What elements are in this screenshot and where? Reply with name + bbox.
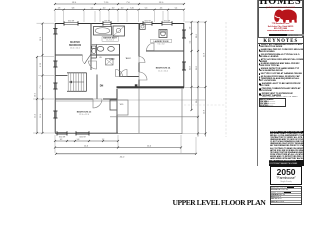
svg-text:21'-6: 21'-6 bbox=[203, 53, 205, 57]
window size labels (top wall) bbox=[68, 20, 171, 22]
mammoth logo bbox=[273, 9, 299, 23]
room label: MASTER BATH bbox=[102, 37, 119, 42]
svg-text:MASTER BATH: MASTER BATH bbox=[103, 37, 117, 40]
svg-text:3050 SH: 3050 SH bbox=[144, 20, 151, 22]
window (top wall) bbox=[162, 21, 172, 25]
svg-text:4-0: 4-0 bbox=[189, 27, 191, 30]
svg-text:6-2: 6-2 bbox=[189, 41, 191, 44]
inverted bars bbox=[269, 160, 304, 163]
spec table bbox=[270, 186, 303, 205]
svg-text:10-4: 10-4 bbox=[196, 99, 198, 102]
dimension chain: bottom second bbox=[54, 146, 182, 149]
svg-text:12'-4: 12'-4 bbox=[147, 146, 151, 148]
window (right wall) bbox=[182, 62, 186, 70]
interior wall: master bedroom east bbox=[90, 23, 92, 55]
svg-text:3050 SH: 3050 SH bbox=[79, 137, 86, 139]
room label: LOFT bbox=[109, 59, 115, 61]
svg-text:11'-4: 11'-4 bbox=[35, 114, 37, 118]
sheet title: UPPER LEVEL FLOOR PLAN bbox=[173, 198, 266, 207]
keynote list bbox=[259, 44, 304, 97]
shower (master bath) bbox=[113, 26, 125, 36]
label: DN bbox=[100, 85, 104, 88]
door wic bbox=[120, 70, 127, 77]
window size labels (bottom wall) bbox=[59, 137, 87, 139]
svg-text:12'-4 x 6'-0: 12'-4 x 6'-0 bbox=[106, 40, 114, 42]
svg-text:12-8: 12-8 bbox=[189, 66, 191, 69]
svg-text:10'-2: 10'-2 bbox=[35, 93, 37, 97]
door bedroom4 bbox=[139, 72, 147, 80]
closet east of bedroom3 bbox=[117, 100, 128, 115]
tub (master bath) bbox=[94, 27, 112, 36]
dimension chain: bottom first bbox=[54, 139, 119, 142]
dimension chain: right inner bbox=[189, 21, 192, 111]
svg-text:5-3: 5-3 bbox=[145, 8, 148, 10]
dimension extension lines: left bbox=[33, 23, 54, 133]
toilet (wc) bbox=[92, 46, 96, 54]
window (top wall) bbox=[103, 21, 111, 25]
exterior wall: thick center (loft south) bbox=[117, 86, 185, 88]
linen closet hall bbox=[106, 59, 114, 66]
window (bottom wall) bbox=[76, 131, 89, 135]
label LIN bbox=[99, 57, 102, 59]
svg-text:BEDROOM #3: BEDROOM #3 bbox=[77, 112, 92, 114]
laundry tub center bbox=[159, 30, 167, 38]
svg-text:2626 FX: 2626 FX bbox=[104, 20, 111, 22]
dimension chain: top overall bbox=[54, 2, 185, 5]
svg-text:11'-4: 11'-4 bbox=[40, 114, 42, 118]
door master bedroom bbox=[82, 56, 90, 64]
svg-text:3-10: 3-10 bbox=[130, 8, 134, 10]
interior wall: wic south bbox=[120, 76, 140, 78]
svg-text:DN: DN bbox=[100, 85, 104, 88]
dimension chain: top detail bbox=[54, 8, 185, 11]
svg-text:12-8: 12-8 bbox=[196, 66, 198, 69]
svg-text:W/D: W/D bbox=[120, 104, 124, 106]
dimension chain: right mid bbox=[196, 21, 199, 137]
roof overhang dashed bbox=[184, 22, 226, 137]
svg-text:BEDROOM #4: BEDROOM #4 bbox=[156, 67, 171, 70]
svg-text:7'-10: 7'-10 bbox=[104, 2, 109, 4]
svg-text:LAUNDRY ROOM: LAUNDRY ROOM bbox=[154, 40, 169, 43]
svg-text:9'-6 x 5'-8: 9'-6 x 5'-8 bbox=[158, 44, 165, 46]
exterior wall: top bbox=[55, 23, 184, 25]
window (left wall) bbox=[53, 61, 57, 67]
utility sink laundry corner bbox=[140, 24, 145, 30]
door hall east bbox=[116, 70, 123, 77]
svg-text:3-2: 3-2 bbox=[60, 139, 63, 141]
svg-text:3-0: 3-0 bbox=[121, 8, 124, 10]
door bedroom4 closet bbox=[139, 57, 145, 63]
interior wall: master bath vanity wall bbox=[91, 44, 119, 46]
dimension extension lines: top bbox=[55, 11, 184, 22]
exterior wall: bottom bedroom3 bbox=[55, 132, 118, 134]
dimension chain: left outer bbox=[35, 56, 39, 134]
svg-text:3050 SH: 3050 SH bbox=[68, 20, 75, 22]
interior wall: laundry south bbox=[146, 50, 184, 52]
svg-text:3-0: 3-0 bbox=[103, 8, 106, 10]
svg-text:3050 SH: 3050 SH bbox=[164, 20, 171, 22]
svg-text:5-4: 5-4 bbox=[175, 8, 178, 10]
svg-text:11'-2 x 10'-0: 11'-2 x 10'-0 bbox=[158, 70, 168, 72]
open area line: horizontal bbox=[110, 116, 199, 118]
door hall-bath bbox=[89, 61, 97, 69]
room label: LAUNDRY bbox=[151, 39, 172, 45]
HOMES logotype bbox=[258, 0, 303, 7]
interior wall: bedroom3 east bbox=[116, 89, 118, 133]
svg-text:15'-0 x 14'-2: 15'-0 x 14'-2 bbox=[70, 47, 80, 49]
interior wall: master suite south bbox=[55, 54, 119, 56]
svg-text:W.I.C.: W.I.C. bbox=[126, 58, 132, 60]
svg-text:MASTER: MASTER bbox=[70, 41, 80, 44]
svg-text:5-8: 5-8 bbox=[77, 139, 80, 141]
svg-text:13'-4: 13'-4 bbox=[72, 2, 77, 4]
interior wall: central north-south bbox=[138, 23, 140, 87]
svg-text:LOFT: LOFT bbox=[109, 59, 115, 61]
interior wall: wic west bbox=[119, 44, 121, 77]
svg-text:5-4: 5-4 bbox=[91, 8, 94, 10]
svg-text:40'-0: 40'-0 bbox=[120, 157, 125, 159]
window (left wall) bbox=[53, 111, 57, 118]
window (left wall) bbox=[53, 29, 57, 35]
exterior wall: right bbox=[183, 23, 185, 88]
open area line: vertical mid bbox=[138, 89, 140, 134]
svg-text:6'-10: 6'-10 bbox=[40, 63, 42, 67]
dimension chain: bottom overall bbox=[55, 153, 197, 159]
open area line: bottom bbox=[118, 132, 206, 134]
svg-text:7'-9: 7'-9 bbox=[40, 86, 42, 89]
dimension chain: left inner bbox=[40, 23, 44, 135]
dimension chain: right outer bbox=[203, 21, 206, 137]
svg-text:3-0: 3-0 bbox=[112, 8, 115, 10]
interior wall: hall west bbox=[90, 55, 92, 70]
general notes block bbox=[270, 131, 304, 161]
dimension extension lines: right bbox=[117, 22, 205, 100]
window (right wall) bbox=[182, 30, 186, 38]
svg-text:12'-0: 12'-0 bbox=[84, 146, 88, 148]
wall legend box bbox=[259, 98, 286, 107]
room label: WIC bbox=[126, 58, 132, 60]
window (bottom wall) bbox=[57, 131, 67, 135]
interior wall: hall south (stair) bbox=[55, 75, 68, 77]
window (left wall) bbox=[53, 83, 57, 89]
chase box west of bedroom3 east wall bbox=[110, 100, 117, 110]
window (top wall) bbox=[64, 21, 78, 25]
open area line: east bbox=[181, 89, 183, 134]
label: WD bbox=[120, 104, 124, 106]
revision bar bbox=[269, 34, 287, 37]
svg-text:7-2: 7-2 bbox=[102, 139, 105, 141]
logo box bbox=[258, 0, 303, 38]
room label: BEDROOM 3 bbox=[77, 112, 92, 117]
keynotes header bbox=[258, 38, 304, 43]
window (top wall) bbox=[143, 21, 152, 25]
interior wall: bedroom3 north bbox=[55, 99, 117, 101]
logo rule + tagline bbox=[259, 7, 302, 8]
svg-text:4-6: 4-6 bbox=[160, 8, 163, 10]
title block strip bbox=[257, 0, 304, 166]
interior wall: stairwell east bbox=[96, 75, 98, 100]
svg-text:LIN.: LIN. bbox=[99, 57, 102, 59]
svg-text:7'-0: 7'-0 bbox=[126, 2, 130, 4]
vanity sinks bbox=[97, 46, 114, 51]
svg-text:15'-0: 15'-0 bbox=[159, 2, 164, 4]
svg-text:10-2: 10-2 bbox=[196, 34, 198, 37]
room label: MASTER BEDROOM bbox=[69, 41, 81, 49]
exterior wall: left bbox=[54, 23, 56, 134]
dimension extension lines: bottom bbox=[55, 135, 196, 154]
svg-text:12'-0 x 11'-6: 12'-0 x 11'-6 bbox=[79, 114, 89, 116]
wc room wall bbox=[91, 45, 97, 59]
2050 plan number box bbox=[270, 166, 303, 185]
svg-text:2-8: 2-8 bbox=[58, 8, 61, 10]
staircase bbox=[67, 73, 87, 92]
address lines (red) bbox=[258, 23, 303, 32]
svg-text:15'-6: 15'-6 bbox=[203, 110, 205, 114]
room label: BEDROOM 4 bbox=[156, 67, 171, 73]
svg-text:6-8: 6-8 bbox=[72, 8, 75, 10]
door laundry bbox=[147, 43, 155, 51]
svg-text:10'-6: 10'-6 bbox=[40, 37, 42, 41]
door bedroom3 bbox=[93, 99, 102, 108]
column marker at loft wall bbox=[135, 84, 138, 87]
